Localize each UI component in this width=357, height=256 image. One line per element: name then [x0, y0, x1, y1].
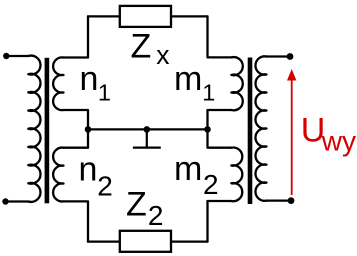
wire middle net (node between n1/n2 and m1/m2)	[88, 128, 208, 130]
wire secondary winding to output bottom terminal	[267, 199, 292, 201]
junction dot left (n1/n2 tap)	[85, 126, 92, 133]
core of right transformer	[248, 58, 253, 205]
wire output top terminal to secondary winding	[267, 55, 291, 57]
impedance Zx	[120, 6, 171, 27]
terminal dot top-right	[287, 53, 294, 60]
svg-text:1: 1	[98, 80, 111, 106]
winding n1	[53, 57, 63, 110]
wire m1 bottom to right junction	[208, 110, 232, 129]
svg-text:m: m	[174, 150, 202, 188]
wire primary winding to input bottom terminal	[6, 200, 29, 202]
winding m1	[231, 57, 242, 110]
wire m2 bottom down to Z2 branch	[208, 201, 232, 242]
wire top branch through Zx	[88, 15, 208, 17]
wire left junction down to winding n2 top	[64, 129, 89, 147]
secondary winding of right transformer	[255, 56, 266, 200]
svg-text:wy: wy	[321, 126, 356, 157]
svg-text:n: n	[80, 60, 99, 98]
svg-text:2: 2	[203, 169, 219, 200]
terminal dot top-left	[3, 53, 9, 59]
ground	[133, 129, 161, 147]
impedance Z2	[120, 231, 171, 252]
wire Zx-right riser down to winding m1 top	[208, 16, 232, 57]
junction dot middle (ground tap)	[144, 126, 151, 133]
winding m2	[231, 147, 242, 201]
winding n2	[53, 148, 63, 202]
svg-text:x: x	[156, 40, 169, 70]
wire bottom branch through Z2	[88, 240, 208, 242]
wire n2 bottom down to Z2 branch	[64, 201, 89, 241]
primary winding of left transformer	[28, 56, 40, 202]
wire input top terminal to primary winding	[6, 55, 28, 57]
svg-text:1: 1	[202, 80, 215, 106]
svg-text:Z: Z	[131, 28, 152, 66]
svg-text:2: 2	[97, 171, 113, 202]
svg-text:2: 2	[148, 200, 164, 231]
wire Zx-left riser down to winding n1 top	[64, 16, 89, 57]
arrow Uwy (output voltage)	[291, 80, 293, 195]
wire n1 bottom to left junction	[64, 110, 89, 129]
junction dot right (m1/m2 tap)	[204, 126, 211, 133]
svg-text:m: m	[174, 60, 202, 98]
svg-text:n: n	[79, 151, 98, 189]
core of left transformer	[45, 58, 50, 204]
terminal dot bottom-right	[288, 197, 295, 204]
wire right junction down to winding m2 top	[208, 129, 232, 147]
svg-text:Z: Z	[126, 186, 147, 224]
terminal dot bottom-left	[2, 198, 8, 204]
